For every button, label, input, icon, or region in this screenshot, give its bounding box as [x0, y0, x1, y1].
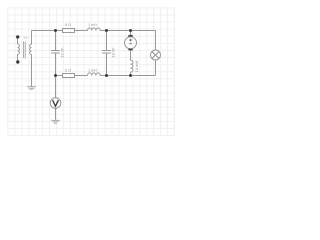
svg-text:10 nF: 10 nF	[60, 47, 65, 58]
resistor R2	[63, 74, 75, 78]
wire top rail right	[100, 30, 155, 32]
svg-text:10 mH: 10 mH	[134, 60, 139, 72]
dc machine M1 polarity minus	[129, 43, 132, 45]
terminal transformer primary top	[16, 35, 19, 38]
svg-text:1 mH: 1 mH	[88, 23, 97, 27]
node top rail / M1	[129, 29, 132, 32]
wire rail2	[56, 75, 156, 77]
voltmeter V1 letter	[53, 100, 59, 106]
node top rail / C2	[105, 29, 108, 32]
dc machine M1 brushes	[128, 35, 132, 50]
terminal transformer primary bottom	[16, 60, 19, 63]
wire motor to L3	[130, 50, 132, 60]
node top rail / C1	[54, 29, 57, 32]
ground at transformer secondary	[27, 87, 36, 90]
resistor R1	[63, 29, 75, 33]
ground at voltmeter	[51, 120, 60, 123]
wire top rail left	[32, 30, 63, 32]
wire lamp to rail2	[155, 60, 157, 76]
wire R1 to L1	[75, 30, 88, 32]
wire right drop to lamp	[155, 31, 157, 51]
inductor L1	[88, 28, 101, 31]
transformer TR1 primary winding	[18, 37, 20, 62]
junction dots	[16, 29, 132, 77]
lamp E1	[151, 50, 161, 60]
inductor L3	[131, 60, 134, 72]
wire L3 to rail2	[130, 72, 132, 75]
node rail2 / L3	[129, 74, 132, 77]
wire voltmeter branch	[55, 76, 57, 120]
capacitor C1	[51, 51, 60, 54]
wire motor branch top	[130, 31, 132, 35]
inductor L2	[88, 73, 101, 76]
dc machine M1 polarity plus	[129, 39, 132, 44]
capacitor C2	[102, 51, 111, 54]
svg-text:1:1: 1:1	[23, 36, 28, 40]
transformer TR1 core	[24, 42, 26, 59]
transformer TR1 secondary winding	[30, 31, 32, 87]
svg-text:6 Ω: 6 Ω	[65, 23, 71, 27]
voltmeter V1	[50, 98, 61, 109]
node rail2 / C2	[105, 74, 108, 77]
labels	[23, 23, 139, 73]
node rail2 / C1	[54, 74, 57, 77]
svg-text:10 nF: 10 nF	[111, 47, 116, 58]
svg-text:6 Ω: 6 Ω	[65, 69, 71, 73]
capacitor C1 branch wires	[55, 31, 57, 76]
svg-text:1 mH: 1 mH	[88, 69, 97, 73]
capacitor C2 branch wires	[106, 31, 108, 76]
dc machine M1	[125, 37, 137, 49]
